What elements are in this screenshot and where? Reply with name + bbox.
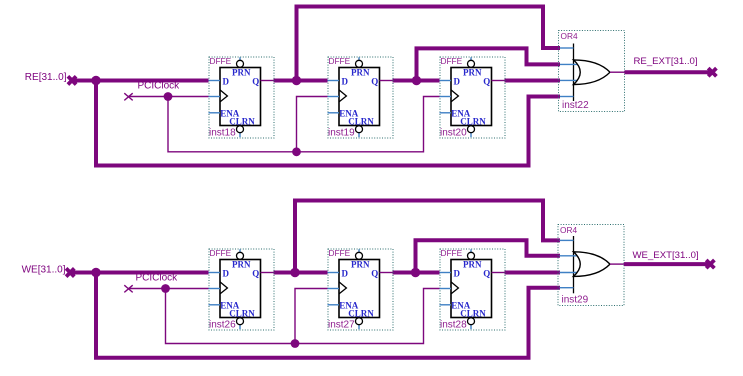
wire inst18 Q to inst19 D <box>274 79 328 83</box>
wire inst26 Q to inst27 D <box>274 271 328 275</box>
pin stub output <box>610 71 625 73</box>
pin marker X for RE[31..0] <box>68 76 76 84</box>
svg-text:inst20: inst20 <box>440 127 467 138</box>
pin stub input 3 <box>560 272 580 274</box>
flip-flop inst20 (DFFE) <box>440 56 506 138</box>
junction inst26 Q node <box>290 268 299 277</box>
svg-text:WE_EXT[31..0]: WE_EXT[31..0] <box>633 250 699 261</box>
wire inst20 Q to OR4 input 3 (top row) <box>505 79 561 83</box>
svg-text:OR4: OR4 <box>561 31 578 41</box>
flip-flop inst27 (DFFE) <box>328 248 394 330</box>
svg-text:inst18: inst18 <box>209 127 236 138</box>
OR gate body <box>574 60 611 85</box>
pin stub input 2 <box>560 255 580 257</box>
wire RE bus input to inst18 D <box>72 79 209 83</box>
wire OR4 output to RE_EXT pin <box>625 70 712 74</box>
junction PCIClock branch (top row) <box>164 92 173 101</box>
wire PCIClock to inst18 clk <box>128 96 209 98</box>
junction PCIClock branch (bottom row) <box>161 284 170 293</box>
input connector line <box>573 44 575 102</box>
junction inst19 Q node <box>412 76 421 85</box>
flip-flop inst19 (DFFE) <box>328 56 394 138</box>
svg-text:inst26: inst26 <box>209 319 236 330</box>
wire PCIClock distribution (top row) <box>168 97 440 152</box>
wire inst26 Q feedforward to OR4 input 1 (bottom row) <box>295 201 560 273</box>
junction WE input / feedback <box>91 268 100 277</box>
svg-text:inst19: inst19 <box>328 127 355 138</box>
or-gate inst22 (OR4, top row) <box>559 31 625 112</box>
wire inst27 Q to inst28 D <box>393 271 440 275</box>
wire inst28 Q to OR4 input 3 (bottom row) <box>505 271 561 275</box>
pin marker X for WE[31..0] <box>66 268 74 276</box>
junction RE input / feedback <box>91 76 100 85</box>
wire WE input feedback to OR4 input 4 (bottom row) <box>96 273 560 358</box>
pin stub input 2 <box>560 63 580 65</box>
wire inst19 Q to inst20 D <box>393 79 440 83</box>
svg-text:PCIClock: PCIClock <box>138 81 181 92</box>
svg-text:inst22: inst22 <box>562 100 589 111</box>
svg-text:RE[31..0]: RE[31..0] <box>25 72 67 83</box>
wire inst19 Q feedforward to OR4 input 2 (top row) <box>417 48 561 80</box>
wire PCIClock distribution (bottom row) <box>166 289 440 344</box>
pin marker X for RE_EXT[31..0] <box>708 68 716 76</box>
svg-text:inst29: inst29 <box>562 294 589 305</box>
symbol boundary (dotted) <box>558 225 624 306</box>
svg-text:RE_EXT[31..0]: RE_EXT[31..0] <box>634 56 698 67</box>
svg-text:OR4: OR4 <box>560 225 577 235</box>
junction inst27 Q node <box>411 268 420 277</box>
svg-text:inst28: inst28 <box>440 319 467 330</box>
svg-text:inst27: inst27 <box>328 319 355 330</box>
pin stub output <box>610 263 624 265</box>
pin stub input 3 <box>560 79 580 81</box>
OR gate body <box>574 252 611 277</box>
pin stub input 1 <box>560 239 574 241</box>
symbol boundary (dotted) <box>559 31 625 112</box>
junction clock distribution (top row) <box>292 147 301 156</box>
wire PCIClock riser to inst19 clk <box>297 97 328 152</box>
pin stub input 4 <box>560 96 574 98</box>
wire PCIClock riser to inst27 clk <box>295 289 328 344</box>
wire OR4 output to WE_EXT pin <box>624 262 709 266</box>
pin marker X for WE_EXT[31..0] <box>706 260 714 268</box>
input connector line <box>573 236 575 293</box>
pin stub input 4 <box>560 287 574 289</box>
pin stub input 1 <box>560 47 574 49</box>
svg-text:WE[31..0]: WE[31..0] <box>22 265 66 276</box>
junction clock distribution (bottom row) <box>291 339 300 348</box>
flip-flop inst26 (DFFE) <box>209 248 275 330</box>
flip-flop inst28 (DFFE) <box>440 248 506 330</box>
wire inst18 Q feedforward to OR4 input 1 (top row) <box>297 7 561 81</box>
junction inst18 Q node <box>292 76 301 85</box>
wire inst27 Q feedforward to OR4 input 2 (bottom row) <box>416 240 561 272</box>
or-gate inst29 (OR4, bottom row) <box>558 225 624 306</box>
wire RE input feedback to OR4 input 4 (top row) <box>96 81 560 166</box>
flip-flop inst18 (DFFE) <box>209 56 275 138</box>
wire PCIClock to inst26 clk <box>128 288 209 290</box>
svg-text:PCIClock: PCIClock <box>136 273 179 284</box>
wire WE bus input to inst26 D <box>70 271 209 275</box>
pin marker X for PCIClock (top row) <box>124 93 132 100</box>
pin marker X for PCIClock (bottom row) <box>124 285 132 292</box>
